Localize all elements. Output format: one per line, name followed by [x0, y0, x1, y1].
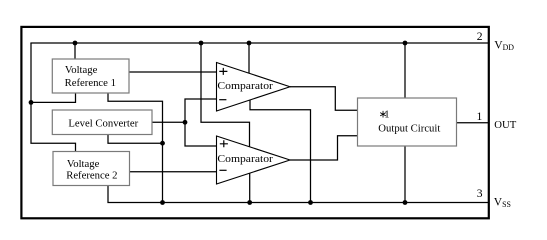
junction VSS rail at comparator 2 ground: [247, 200, 252, 205]
wire Level Converter ground: [108, 135, 163, 144]
comparator 1: [217, 63, 291, 112]
comparator 1 plus input symbol: [219, 68, 227, 75]
wire Voltage Reference 1 output to comparator 1 plus input: [129, 71, 217, 73]
wire VDD rail: [30, 42, 488, 44]
svg-text:VDD: VDD: [494, 39, 514, 52]
block Level Converter: [52, 110, 152, 135]
block Voltage Reference 2: [53, 152, 130, 186]
junction VDD rail at comparator 2 supply: [199, 41, 204, 46]
comparator 1 minus input symbol: [219, 99, 226, 101]
wire comparator 1 ground to VSS rail: [250, 100, 311, 203]
svg-text:3: 3: [477, 187, 483, 200]
comparator 2 plus input symbol: [220, 140, 228, 147]
wire left branch to Voltage Reference 1 bottom: [31, 93, 76, 102]
svg-text:Voltage: Voltage: [65, 64, 98, 76]
wire Level Converter output: [152, 121, 185, 123]
junction VSS rail at ground drop: [160, 200, 165, 205]
wire VSS rail: [108, 186, 489, 203]
svg-text:1: 1: [384, 109, 389, 121]
svg-text:VSS: VSS: [494, 196, 511, 209]
wire VDD to Output Circuit top: [404, 43, 406, 98]
block Output Circuit U3: [358, 98, 457, 146]
wire node to comparator 2 plus input: [185, 122, 217, 146]
wire OUT pin: [457, 122, 489, 124]
junction ground drop at Level Converter ground: [160, 141, 165, 146]
junction left rail at VR1 bottom branch: [29, 100, 34, 105]
svg-text:2: 2: [477, 30, 483, 43]
svg-text:Output Circuit: Output Circuit: [378, 122, 440, 134]
junction VDD rail at VR1 feed: [73, 41, 78, 46]
block Voltage Reference 1: [52, 59, 129, 93]
junction VSS rail at comparator 1 ground: [308, 200, 313, 205]
wire left VDD branch: [31, 43, 76, 152]
wire Output Circuit bottom to VSS rail: [404, 146, 406, 203]
wire comparator 1 output to Output Circuit: [290, 87, 358, 111]
svg-text:Level Converter: Level Converter: [68, 118, 138, 130]
wire node to comparator 1 minus input: [185, 99, 217, 122]
wire VDD supply to comparator 1: [248, 43, 250, 73]
svg-text:Reference 2: Reference 2: [66, 169, 117, 181]
junction VSS rail at Output Circuit ground: [403, 200, 408, 205]
wire VDD to Voltage Reference 1 top: [74, 43, 76, 59]
svg-text:OUT: OUT: [494, 119, 516, 131]
wire Voltage Reference 2 output to comparator 2 minus input: [130, 171, 217, 173]
svg-text:1: 1: [477, 110, 483, 123]
junction VDD rail at comparator 1 supply: [247, 41, 252, 46]
junction node Level Converter output: [183, 120, 188, 125]
svg-text:Comparator: Comparator: [217, 153, 273, 165]
svg-text:Comparator: Comparator: [217, 80, 273, 92]
comparator 2: [217, 136, 291, 184]
junction VDD rail at Output Circuit feed: [403, 41, 408, 46]
wire comparator 2 output to Output Circuit: [290, 136, 358, 160]
svg-text:Reference 1: Reference 1: [65, 77, 116, 89]
wire Voltage Reference 1 ground drop to VSS rail: [108, 93, 163, 203]
IC package outline: [21, 27, 488, 218]
comparator 2 minus input symbol: [219, 169, 226, 171]
wire comparator 2 ground to VSS rail: [249, 173, 251, 202]
wire VDD supply to comparator 2: [201, 43, 250, 147]
